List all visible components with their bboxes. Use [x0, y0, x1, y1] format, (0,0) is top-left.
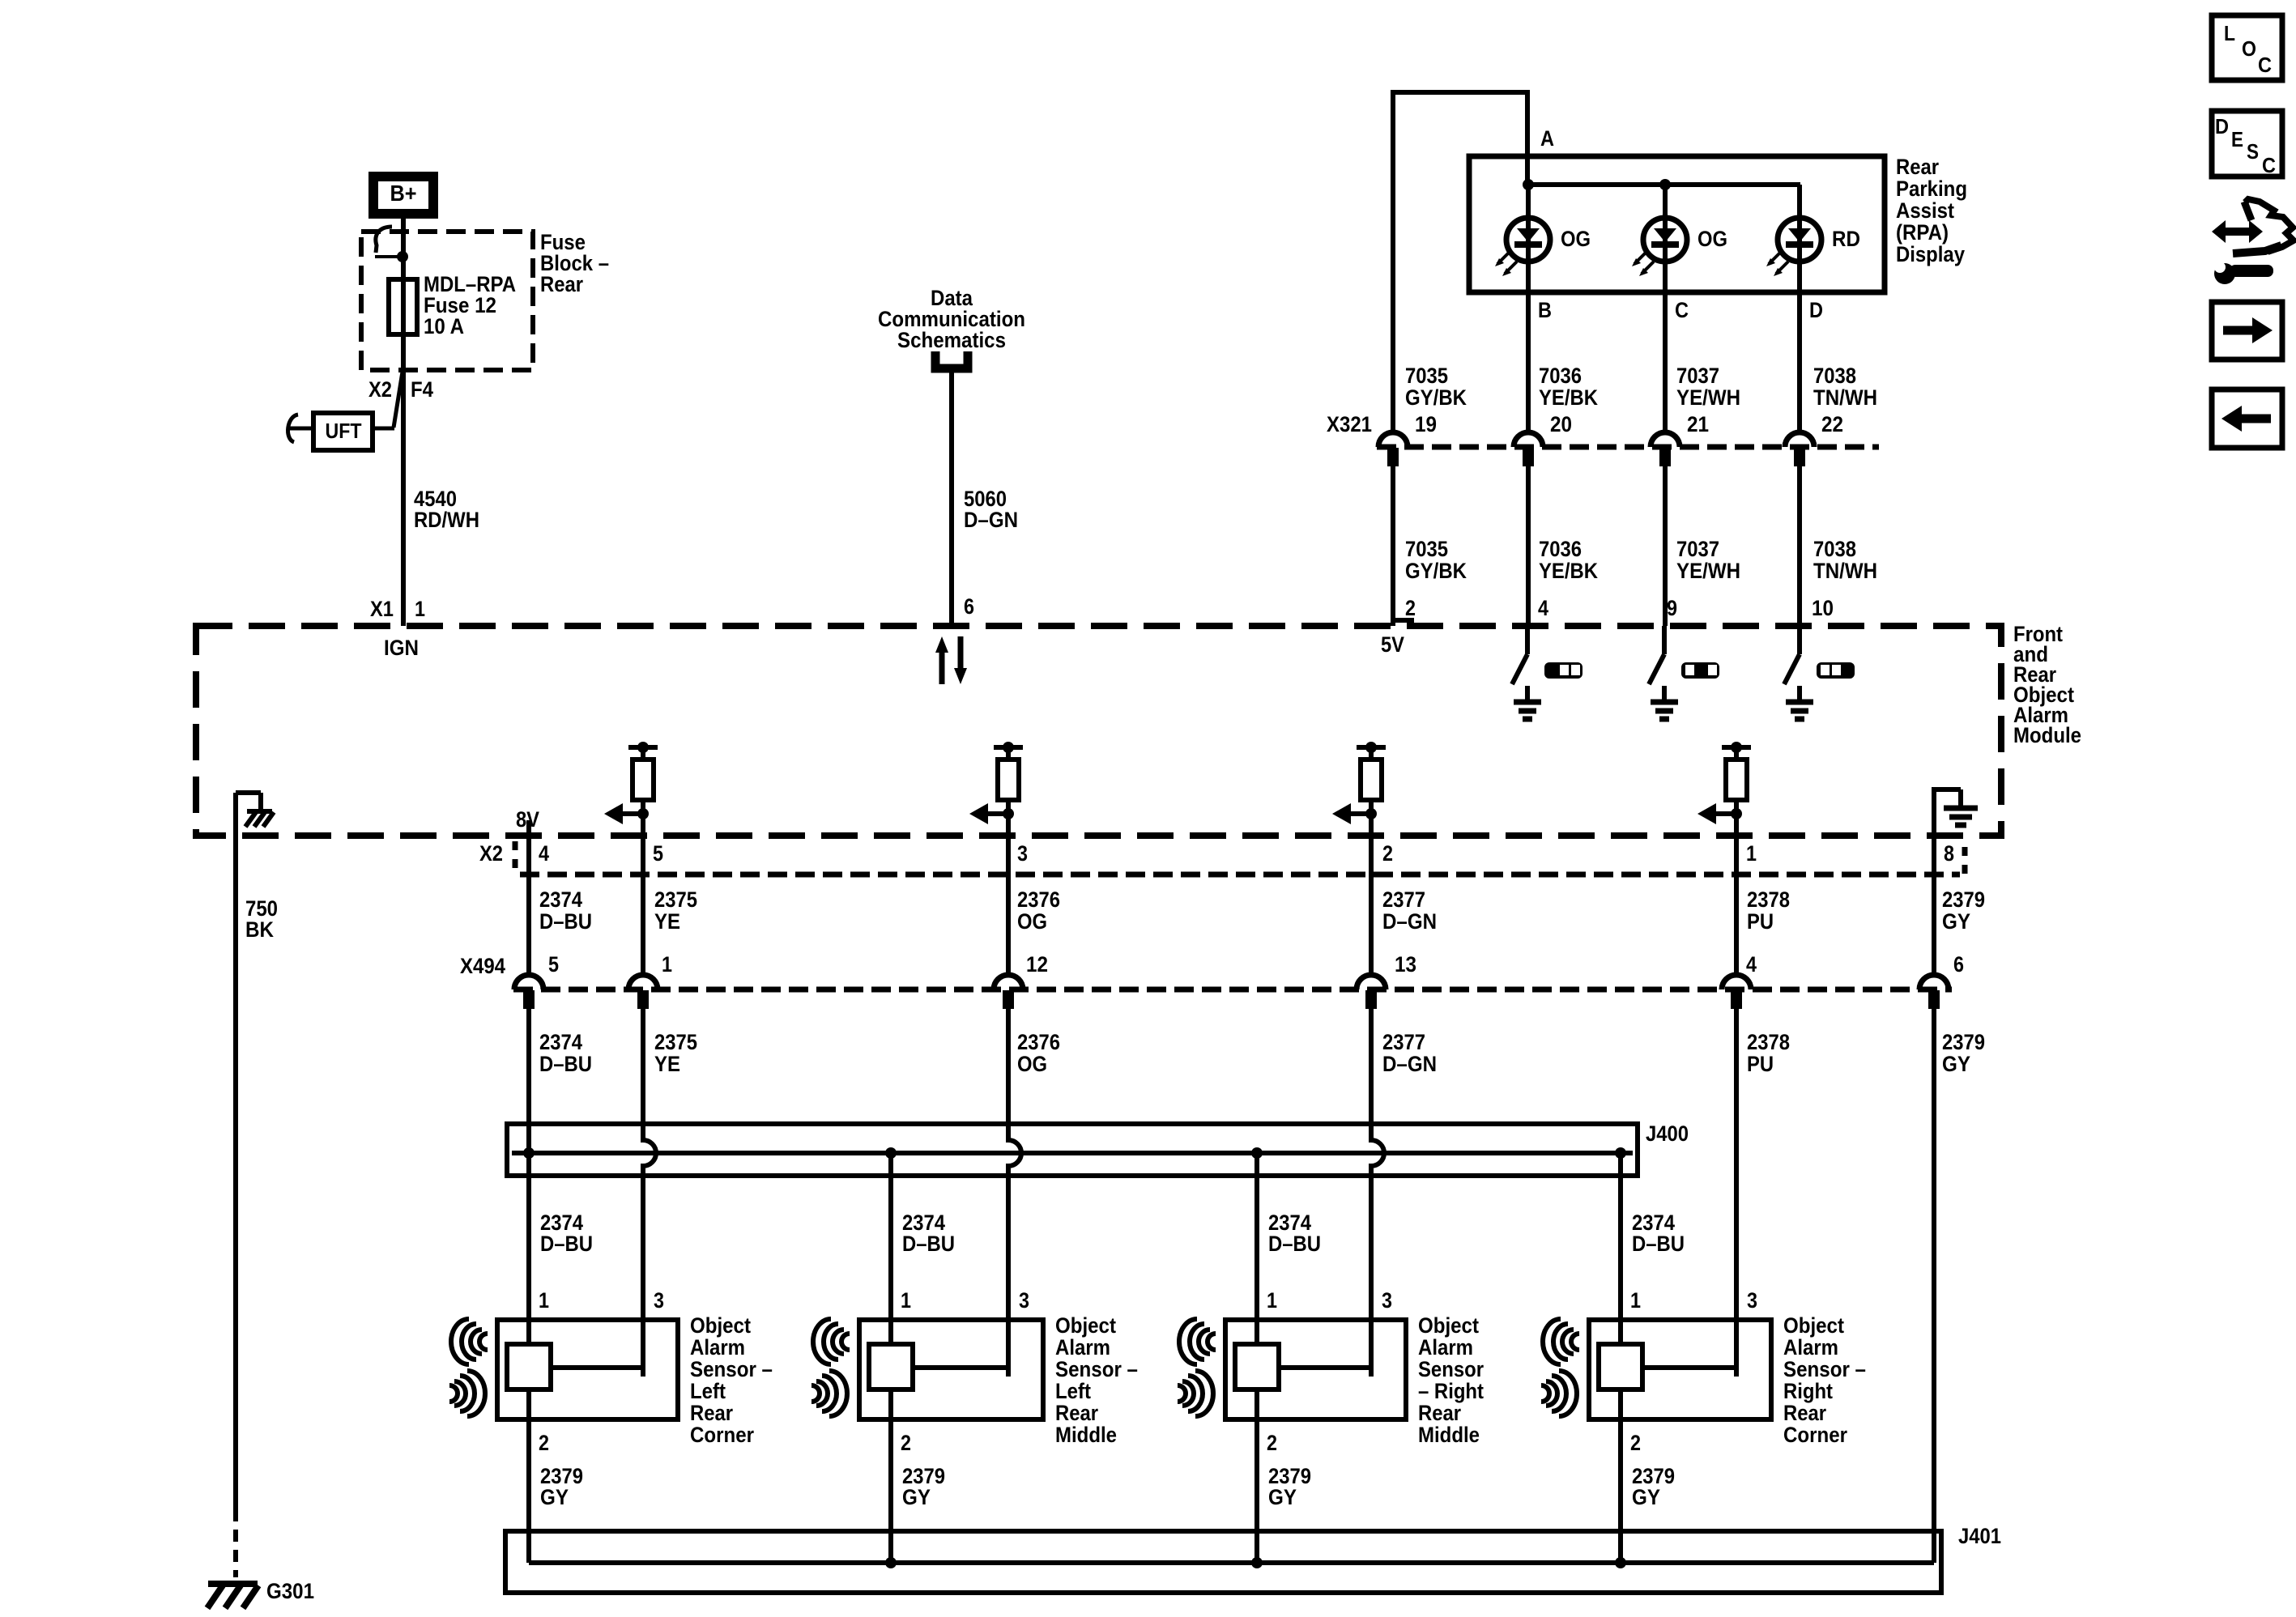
- splice pack J400: [507, 1124, 1638, 1176]
- wire label 2379 GY below X494: [1942, 1030, 1985, 1076]
- serial data arrows inside module: [935, 636, 967, 684]
- svg-text:Sensor –: Sensor –: [1055, 1357, 1138, 1381]
- sensor 1 internal link pin1-pin3: [551, 1320, 643, 1370]
- sensor 4 pin 1: [1630, 1288, 1641, 1313]
- svg-text:7037: 7037: [1676, 537, 1719, 561]
- connector X494: [460, 954, 1952, 989]
- pin 21: [1687, 412, 1709, 436]
- wire to sensor signal (hop over J400 bus): [1371, 1009, 1384, 1377]
- svg-text:YE: YE: [654, 1052, 680, 1076]
- sensor 3 transducer: [1235, 1344, 1279, 1389]
- svg-text:2: 2: [1405, 596, 1416, 620]
- svg-text:Middle: Middle: [1418, 1423, 1480, 1447]
- X321 terminal pin 20: [1514, 432, 1543, 466]
- sensor 2 pin 3: [1019, 1288, 1029, 1313]
- svg-text:2377: 2377: [1382, 1030, 1425, 1054]
- svg-text:3: 3: [1747, 1288, 1757, 1313]
- svg-text:Rear: Rear: [1896, 155, 1939, 179]
- svg-text:Object: Object: [1418, 1313, 1479, 1338]
- icon: LOC box: [2212, 15, 2282, 80]
- splice pack J401: [505, 1531, 1941, 1593]
- pull-up resistor R4 to 8V: [1722, 742, 1751, 816]
- svg-text:10 A: 10 A: [424, 314, 464, 338]
- pin 4: [1746, 952, 1757, 977]
- svg-text:2375: 2375: [654, 1030, 697, 1054]
- wire label 7036 YE/BK: [1539, 364, 1598, 410]
- X2 pin 5: [653, 841, 663, 866]
- svg-text:RD/WH: RD/WH: [414, 508, 479, 532]
- svg-text:C: C: [1675, 298, 1689, 322]
- module pin 2: [1405, 596, 1416, 620]
- svg-text:OG: OG: [1017, 1052, 1047, 1076]
- svg-text:D–BU: D–BU: [1268, 1232, 1321, 1256]
- svg-text:20: 20: [1550, 412, 1572, 436]
- wire label 2374 D-BU: [902, 1211, 955, 1256]
- svg-text:OG: OG: [1698, 227, 1727, 251]
- sensor 2 transducer: [869, 1344, 913, 1389]
- sensor 2 ultrasonic waves: [811, 1319, 850, 1416]
- off-page connector bracket: [935, 351, 968, 368]
- pin 13: [1395, 952, 1416, 977]
- svg-text:D–BU: D–BU: [539, 909, 592, 934]
- svg-text:3: 3: [1017, 841, 1028, 866]
- svg-text:J401: J401: [1958, 1524, 2001, 1548]
- svg-text:D–BU: D–BU: [540, 1232, 593, 1256]
- svg-text:X2: X2: [479, 841, 503, 866]
- svg-text:D–BU: D–BU: [902, 1232, 955, 1256]
- sensor 3 pin 1: [1267, 1288, 1277, 1313]
- clip terminal at fuse input: [375, 227, 408, 262]
- svg-text:4: 4: [1538, 596, 1548, 620]
- sense arrow at R1: [604, 803, 649, 824]
- svg-text:4: 4: [1746, 952, 1757, 977]
- svg-text:Rear: Rear: [1055, 1401, 1098, 1425]
- wire 2375 YE: [641, 816, 645, 975]
- wire 2377 D–GN: [1369, 816, 1374, 975]
- pull-up resistor R2 to 8V: [994, 742, 1023, 816]
- svg-text:YE/BK: YE/BK: [1539, 385, 1598, 410]
- pin D: [1809, 298, 1823, 322]
- module pin 4: [1538, 596, 1548, 620]
- svg-text:2: 2: [1382, 841, 1393, 866]
- svg-text:Object: Object: [1783, 1313, 1844, 1338]
- svg-text:Right: Right: [1783, 1379, 1833, 1403]
- wire 2374 D-BU drop to sensor 3: [1254, 1153, 1259, 1351]
- wire label 2374 D-BU: [1268, 1211, 1321, 1256]
- svg-text:2374: 2374: [539, 1030, 582, 1054]
- wire: UFT to main feed: [373, 427, 394, 431]
- pin 20: [1550, 412, 1572, 436]
- object alarm sensor 2 box: [859, 1320, 1043, 1419]
- wire label 2379 GY: [1268, 1464, 1311, 1509]
- wire label 2375 YE: [654, 887, 697, 934]
- X494 terminal pin 4: [1722, 975, 1751, 1009]
- svg-text:2376: 2376: [1017, 887, 1060, 912]
- svg-text:2374: 2374: [539, 887, 582, 912]
- RPA display box: [1469, 156, 1885, 292]
- fuse MDL-RPA Fuse 12 10A: [389, 279, 417, 334]
- icon: back arrow box: [2212, 389, 2282, 448]
- wire 2378 PU to sensor 4 pin 3: [1734, 1009, 1739, 1377]
- svg-text:D–GN: D–GN: [1382, 909, 1437, 934]
- wire 7035 GY/BK to module: [1391, 466, 1395, 626]
- svg-text:O: O: [2242, 36, 2256, 61]
- wire to sensor signal (hop over J400 bus): [1008, 1009, 1021, 1377]
- sensor 1 pin 1: [539, 1288, 549, 1313]
- svg-text:OG: OG: [1017, 909, 1047, 934]
- distance indicator icon 1: [1544, 662, 1582, 679]
- svg-text:YE/BK: YE/BK: [1539, 559, 1598, 583]
- svg-text:BK: BK: [245, 917, 274, 942]
- label: Object Alarm Sensor – Left Rear Corner: [690, 1313, 773, 1447]
- label: Object Alarm Sensor – Left Rear Middle: [1055, 1313, 1138, 1447]
- svg-text:A: A: [1540, 126, 1554, 151]
- svg-text:3: 3: [654, 1288, 664, 1313]
- svg-text:X1: X1: [370, 597, 394, 621]
- wire label 7035 GY/BK: [1405, 364, 1467, 410]
- svg-text:7037: 7037: [1676, 364, 1719, 388]
- svg-text:22: 22: [1821, 412, 1843, 436]
- wire label 7038 TN/WH: [1813, 537, 1877, 583]
- svg-text:F4: F4: [411, 377, 433, 402]
- svg-text:YE/WH: YE/WH: [1676, 385, 1740, 410]
- sensor 1 pin 3: [654, 1288, 664, 1313]
- wire label 2379 GY: [1942, 887, 1985, 934]
- svg-text:L: L: [2224, 21, 2235, 45]
- svg-text:D: D: [2215, 114, 2229, 138]
- svg-text:6: 6: [1953, 952, 1964, 977]
- svg-text:S: S: [2247, 139, 2259, 164]
- wire: B+ to fuse to X1 (4540 RD/WH): [401, 214, 406, 626]
- X494 terminal pin 1: [628, 975, 658, 1009]
- X494 terminal pin 6: [1919, 975, 1949, 1009]
- connector label X2 / F4 at fuse block: [368, 377, 433, 402]
- X2 pin 1: [1746, 841, 1757, 866]
- wire label 2378 PU below X494: [1747, 1030, 1790, 1076]
- wire label 7038 TN/WH: [1813, 364, 1877, 410]
- wire 2378 PU: [1734, 816, 1739, 975]
- svg-text:TN/WH: TN/WH: [1813, 385, 1877, 410]
- pin 1: [662, 952, 672, 977]
- svg-text:– Right: – Right: [1418, 1379, 1484, 1403]
- sensor 1 transducer: [507, 1344, 551, 1389]
- wire label 2376 OG below X494: [1017, 1030, 1060, 1076]
- distance indicator icon 3: [1817, 662, 1855, 679]
- wire label 2376 OG: [1017, 887, 1060, 934]
- object alarm sensor 4 box: [1589, 1320, 1771, 1419]
- svg-text:GY: GY: [540, 1485, 569, 1509]
- object alarm sensor 1 box: [497, 1320, 678, 1419]
- svg-text:D–GN: D–GN: [964, 508, 1018, 532]
- module pin 10: [1812, 596, 1834, 620]
- wire 5060 D-GN to module pin 6: [949, 372, 954, 626]
- wire label 2379 GY: [1632, 1464, 1675, 1509]
- svg-text:1: 1: [539, 1288, 549, 1313]
- label: Fuse Block - Rear: [540, 230, 609, 296]
- sense arrow at R4: [1698, 803, 1742, 824]
- svg-text:C: C: [2258, 53, 2272, 77]
- svg-text:(RPA): (RPA): [1896, 220, 1949, 245]
- svg-text:D: D: [1809, 298, 1823, 322]
- sensor 4 internal link pin1-pin3: [1642, 1320, 1736, 1370]
- svg-text:Module: Module: [2013, 723, 2081, 747]
- internal ground node (left): [236, 793, 274, 827]
- label: Front and Rear Object Alarm Module: [2013, 622, 2081, 747]
- node IGN: [384, 636, 419, 660]
- sensor 3 pin 2: [1267, 1431, 1277, 1455]
- clip terminal at UFT: [288, 415, 313, 442]
- pin C: [1675, 298, 1689, 322]
- pull-up resistor R1 to 8V: [628, 742, 658, 816]
- ground G301: [207, 1584, 258, 1608]
- svg-text:Alarm: Alarm: [1418, 1335, 1473, 1360]
- connector X321: [1327, 412, 1879, 447]
- svg-text:X321: X321: [1327, 412, 1372, 436]
- svg-text:X494: X494: [460, 954, 505, 978]
- sensor 3 ultrasonic waves: [1178, 1319, 1216, 1416]
- svg-text:1: 1: [1746, 841, 1757, 866]
- svg-text:Alarm: Alarm: [1055, 1335, 1110, 1360]
- svg-text:2375: 2375: [654, 887, 697, 912]
- wire label 750 BK: [245, 896, 278, 942]
- module pin 9: [1667, 596, 1677, 620]
- svg-text:13: 13: [1395, 952, 1416, 977]
- label OG: [1698, 227, 1727, 251]
- svg-text:B: B: [1538, 298, 1552, 322]
- svg-text:Object: Object: [1055, 1313, 1116, 1338]
- svg-text:7038: 7038: [1813, 537, 1856, 561]
- wire label 2374 D-BU: [1632, 1211, 1685, 1256]
- svg-text:Rear: Rear: [690, 1401, 733, 1425]
- label: Object Alarm Sensor – Right Rear Corner: [1783, 1313, 1866, 1447]
- svg-text:X2: X2: [368, 377, 392, 402]
- X321 terminal pin 19: [1378, 432, 1408, 466]
- wire label 2378 PU: [1747, 887, 1790, 934]
- svg-text:12: 12: [1026, 952, 1048, 977]
- X2 pin 8: [1944, 841, 1954, 866]
- svg-text:Sensor: Sensor: [1418, 1357, 1484, 1381]
- svg-text:D–GN: D–GN: [1382, 1052, 1437, 1076]
- svg-text:7038: 7038: [1813, 364, 1856, 388]
- connector label X1 / 1 at module: [370, 597, 425, 621]
- svg-text:D–BU: D–BU: [1632, 1232, 1685, 1256]
- wire label 2379 GY: [540, 1464, 583, 1509]
- wire to sensor signal (hop over J400 bus): [643, 1009, 656, 1377]
- svg-text:1: 1: [415, 597, 425, 621]
- svg-text:G301: G301: [266, 1579, 314, 1603]
- pin A: [1540, 126, 1554, 151]
- svg-text:3: 3: [1019, 1288, 1029, 1313]
- svg-text:Rear: Rear: [1783, 1401, 1826, 1425]
- wire 2379 GY from sensor 1: [526, 1389, 531, 1563]
- pin 19: [1415, 412, 1437, 436]
- wire label 7037 YE/WH: [1676, 364, 1740, 410]
- svg-text:Left: Left: [690, 1379, 726, 1403]
- wire 8V sense 2374: [526, 820, 531, 975]
- X2 pin 2: [1382, 841, 1393, 866]
- svg-text:7035: 7035: [1405, 537, 1448, 561]
- display supply bus: [1523, 179, 1800, 190]
- svg-text:Corner: Corner: [690, 1423, 754, 1447]
- svg-text:2: 2: [1267, 1431, 1277, 1455]
- svg-text:GY: GY: [902, 1485, 931, 1509]
- svg-text:Display: Display: [1896, 242, 1965, 266]
- sensor 4 ultrasonic waves: [1541, 1319, 1579, 1416]
- sense arrow at R3: [1332, 803, 1377, 824]
- pull-up resistor R3 to 8V: [1357, 742, 1386, 816]
- svg-text:7036: 7036: [1539, 537, 1582, 561]
- distance indicator icon 2: [1681, 662, 1719, 679]
- svg-text:7035: 7035: [1405, 364, 1448, 388]
- svg-text:5V: 5V: [1381, 632, 1404, 657]
- wire label 7037 YE/WH: [1676, 537, 1740, 583]
- wire label 2374 D–BU below X494: [539, 1030, 592, 1076]
- UFT terminal box: [313, 413, 373, 450]
- svg-text:PU: PU: [1747, 1052, 1774, 1076]
- svg-text:Left: Left: [1055, 1379, 1091, 1403]
- svg-text:Corner: Corner: [1783, 1423, 1847, 1447]
- svg-text:Parking: Parking: [1896, 177, 1967, 201]
- svg-text:7036: 7036: [1539, 364, 1582, 388]
- svg-text:B+: B+: [390, 181, 417, 206]
- svg-text:1: 1: [901, 1288, 911, 1313]
- X494 terminal pin 12: [994, 975, 1023, 1009]
- svg-text:Middle: Middle: [1055, 1423, 1117, 1447]
- wire 2379 GY from sensor 3: [1254, 1389, 1259, 1563]
- svg-text:8: 8: [1944, 841, 1954, 866]
- svg-text:4: 4: [539, 841, 549, 866]
- svg-text:D–BU: D–BU: [539, 1052, 592, 1076]
- svg-text:IGN: IGN: [384, 636, 419, 660]
- sensor 2 pin 1: [901, 1288, 911, 1313]
- svg-text:2379: 2379: [1942, 887, 1985, 912]
- svg-text:Schematics: Schematics: [897, 328, 1006, 352]
- svg-text:OG: OG: [1561, 227, 1591, 251]
- X321 terminal pin 21: [1651, 432, 1680, 466]
- svg-text:2: 2: [901, 1431, 911, 1455]
- wire label 4540 RD/WH: [414, 487, 479, 532]
- svg-text:Rear: Rear: [540, 272, 583, 296]
- label: Rear Parking Assist (RPA) Display: [1896, 155, 1967, 266]
- wire label 7036 YE/BK: [1539, 537, 1598, 583]
- label RD: [1832, 227, 1860, 251]
- svg-text:GY/BK: GY/BK: [1405, 385, 1467, 410]
- connector slash at X2/F4: [394, 372, 403, 428]
- svg-text:PU: PU: [1747, 909, 1774, 934]
- switch to ground (display driver 2): [1649, 626, 1678, 719]
- wire 7037 YE/WH to module: [1663, 466, 1668, 626]
- label J401: [1958, 1524, 2001, 1548]
- svg-text:YE/WH: YE/WH: [1676, 559, 1740, 583]
- object alarm sensor 3 box: [1225, 1320, 1406, 1419]
- wire 2379 GY from module to J401: [1932, 1009, 1936, 1563]
- svg-text:Sensor –: Sensor –: [1783, 1357, 1866, 1381]
- LED 1 (OG) in RPA display: [1495, 185, 1550, 432]
- switch to ground (display driver 1): [1512, 626, 1541, 719]
- node 8V: [516, 807, 539, 832]
- LED 2 (OG) in RPA display: [1632, 185, 1687, 432]
- wire 2374 D-BU drop to sensor 4: [1618, 1153, 1623, 1351]
- wire label 7035 GY/BK: [1405, 537, 1467, 583]
- svg-text:1: 1: [1267, 1288, 1277, 1313]
- svg-text:GY: GY: [1942, 1052, 1970, 1076]
- svg-text:5: 5: [548, 952, 559, 977]
- label: MDL-RPA Fuse 12 10 A: [424, 272, 516, 338]
- svg-text:GY: GY: [1632, 1485, 1660, 1509]
- label OG: [1561, 227, 1591, 251]
- svg-text:GY/BK: GY/BK: [1405, 559, 1467, 583]
- wire label 2377 D–GN below X494: [1382, 1030, 1437, 1076]
- icon: forward arrow box: [2212, 302, 2282, 360]
- pin 6: [964, 594, 974, 619]
- svg-text:1: 1: [662, 952, 672, 977]
- svg-text:YE: YE: [654, 909, 680, 934]
- svg-text:RD: RD: [1832, 227, 1860, 251]
- svg-text:2: 2: [1630, 1431, 1641, 1455]
- svg-text:6: 6: [964, 594, 974, 619]
- X2 pin 4: [539, 841, 549, 866]
- B+ terminal box: [373, 177, 433, 214]
- X494 terminal pin 5: [514, 975, 543, 1009]
- sensor 4 pin 3: [1747, 1288, 1757, 1313]
- switch to ground (display driver 3): [1784, 626, 1813, 719]
- label J400: [1646, 1121, 1689, 1146]
- svg-text:GY: GY: [1942, 909, 1970, 934]
- wire: display feed A loop: [1393, 90, 1530, 432]
- svg-text:Assist: Assist: [1896, 198, 1954, 223]
- svg-text:Alarm: Alarm: [1783, 1335, 1838, 1360]
- svg-text:2378: 2378: [1747, 887, 1790, 912]
- svg-text:1: 1: [1630, 1288, 1641, 1313]
- svg-text:C: C: [2262, 153, 2276, 177]
- pin 12: [1026, 952, 1048, 977]
- sense arrow at R2: [969, 803, 1014, 824]
- svg-text:2379: 2379: [1942, 1030, 1985, 1054]
- svg-text:Alarm: Alarm: [690, 1335, 745, 1360]
- sensor 2 internal link pin1-pin3: [913, 1320, 1008, 1370]
- svg-text:Object: Object: [690, 1313, 751, 1338]
- wire label 2377 D–GN: [1382, 887, 1437, 934]
- svg-text:5: 5: [653, 841, 663, 866]
- wire 2374 D-BU drop to sensor 1: [526, 1153, 531, 1351]
- svg-text:Rear: Rear: [1418, 1401, 1461, 1425]
- sensor 3 pin 3: [1382, 1288, 1392, 1313]
- wire 2379 GY: [1932, 836, 1936, 975]
- X494 terminal pin 13: [1357, 975, 1386, 1009]
- label: Object Alarm Sensor – Right Rear Middle: [1418, 1313, 1484, 1447]
- wire 2379 GY from sensor 2: [888, 1389, 893, 1563]
- wire 2374 D-BU drop to sensor 2: [888, 1153, 893, 1351]
- wire 2376 OG: [1006, 816, 1011, 975]
- svg-text:TN/WH: TN/WH: [1813, 559, 1877, 583]
- wire label 2374 D–BU: [539, 887, 592, 934]
- pin 6: [1953, 952, 1964, 977]
- svg-text:2376: 2376: [1017, 1030, 1060, 1054]
- LED 3 (RD) in RPA display: [1766, 185, 1821, 432]
- svg-text:9: 9: [1667, 596, 1677, 620]
- svg-text:Sensor –: Sensor –: [690, 1357, 773, 1381]
- node 5V: [1381, 620, 1414, 657]
- sensor 3 internal link pin1-pin3: [1279, 1320, 1371, 1370]
- sensor 4 transducer: [1599, 1344, 1642, 1389]
- pin 5: [548, 952, 559, 977]
- sensor 1 ultrasonic waves: [449, 1319, 488, 1416]
- pin 22: [1821, 412, 1843, 436]
- svg-text:19: 19: [1415, 412, 1437, 436]
- svg-text:GY: GY: [1268, 1485, 1297, 1509]
- Front and Rear Object Alarm Module dashed box: [196, 626, 2001, 836]
- wire label 2379 GY: [902, 1464, 945, 1509]
